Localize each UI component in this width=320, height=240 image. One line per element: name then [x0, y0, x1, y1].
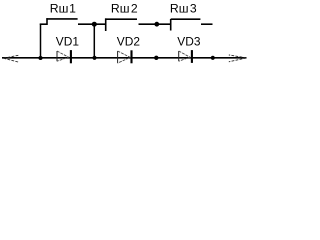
resistor Rш3 (left side): [170, 19, 172, 31]
diode VD3 triangle left edge: [178, 51, 180, 61]
wire: upper wire between R1 and R2: [78, 23, 106, 25]
wire: left vertical from upper wire to bus: [40, 24, 42, 58]
resistor Rш3 (top edge): [171, 18, 201, 20]
wire: main horizontal bus: [2, 57, 247, 59]
arrow right end of bus: [229, 55, 247, 62]
resistor Rш2 (top edge): [105, 18, 137, 20]
node junction dot on bus at x40: [38, 56, 42, 60]
node junction dot on upper wire at x94: [92, 22, 97, 27]
diode VD2 triangle left edge: [117, 51, 119, 63]
arrow left end of bus: [4, 55, 20, 62]
diode VD1 triangle left edge: [56, 51, 58, 61]
node junction dot on bus at x212: [211, 56, 215, 60]
svg-text:VD3: VD3: [177, 35, 201, 49]
wire: middle vertical from upper wire to bus: [93, 24, 95, 58]
wire: upper wire segment before R1: [40, 23, 48, 25]
diode VD3 cathode bar: [191, 50, 193, 63]
svg-text:Rш1: Rш1: [50, 2, 76, 16]
resistor Rш1 (top edge): [46, 18, 77, 20]
resistor Rш1 (left side): [46, 18, 48, 25]
diode VD1 cathode bar: [70, 50, 72, 63]
diode VD2 triangle diagonals: [118, 51, 131, 63]
node junction dot on upper wire at x157: [154, 22, 159, 27]
svg-text:Rш2: Rш2: [111, 2, 138, 16]
diode VD1 triangle diagonals: [57, 51, 69, 61]
node junction dot on bus at x156: [154, 56, 158, 60]
svg-text:VD2: VD2: [117, 35, 141, 49]
diode VD2 cathode bar: [130, 50, 132, 63]
svg-text:Rш3: Rш3: [170, 2, 197, 16]
diode VD3 triangle diagonals: [179, 51, 190, 61]
node junction dot on bus at x94: [92, 56, 96, 60]
resistor Rш2 (left side): [105, 18, 107, 31]
wire: upper wire between R2 and R3: [139, 23, 172, 25]
svg-text:VD1: VD1: [56, 35, 80, 49]
wire: upper wire after R3: [201, 23, 213, 25]
